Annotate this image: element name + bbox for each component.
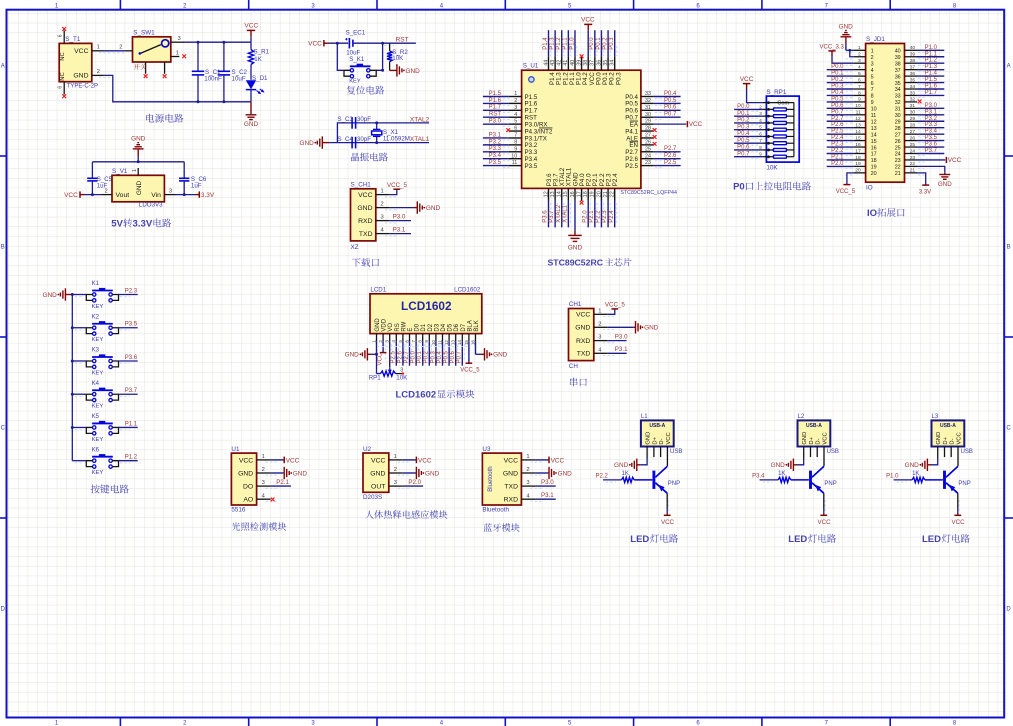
svg-text:RP1: RP1 xyxy=(369,375,382,382)
svg-text:24: 24 xyxy=(645,153,651,159)
S_JD1 right net wires P1/P3 xyxy=(917,45,944,154)
svg-text:P3.0: P3.0 xyxy=(393,214,406,221)
svg-text:10K: 10K xyxy=(392,55,404,62)
svg-text:1: 1 xyxy=(262,454,265,460)
wire T1 VCC to SW1 xyxy=(103,51,125,53)
svg-text:31: 31 xyxy=(895,107,901,113)
svg-text:17: 17 xyxy=(871,152,877,158)
svg-text:P1.0: P1.0 xyxy=(569,37,575,50)
svg-text:30: 30 xyxy=(910,110,916,116)
svg-text:6: 6 xyxy=(514,126,517,132)
svg-text:CH: CH xyxy=(569,363,579,370)
svg-text:3: 3 xyxy=(514,105,517,111)
svg-text:22: 22 xyxy=(910,161,916,167)
svg-text:31: 31 xyxy=(645,105,651,111)
resistor S_R1 1K xyxy=(248,42,269,80)
capacitor S_C3 30pF xyxy=(337,116,371,129)
svg-text:KEY: KEY xyxy=(92,337,104,343)
ground GND reset xyxy=(390,64,420,76)
svg-text:AO: AO xyxy=(243,497,253,504)
wire reset right drop xyxy=(376,43,384,72)
svg-text:S_EC1: S_EC1 xyxy=(346,30,366,37)
svg-text:29: 29 xyxy=(910,116,916,122)
svg-text:P3.0: P3.0 xyxy=(489,119,502,125)
svg-text:D-: D- xyxy=(950,438,956,444)
USB connector L3 xyxy=(932,414,973,466)
svg-text:VCC: VCC xyxy=(371,457,385,464)
ground GND JD1 top xyxy=(839,24,854,57)
svg-text:P3.6: P3.6 xyxy=(925,142,938,148)
svg-text:2: 2 xyxy=(262,467,265,473)
svg-text:7: 7 xyxy=(871,87,874,93)
svg-text:VCC: VCC xyxy=(818,519,832,526)
S_U1 bottom pins 12-22 xyxy=(543,167,620,230)
svg-text:P0.4: P0.4 xyxy=(664,91,677,97)
connector CH1 serial port xyxy=(569,301,615,370)
svg-text:VCC: VCC xyxy=(581,17,595,24)
svg-text:P3.7: P3.7 xyxy=(549,210,555,223)
svg-text:BLA: BLA xyxy=(467,320,473,331)
svg-text:37: 37 xyxy=(910,64,916,70)
svg-text:8: 8 xyxy=(514,139,517,145)
svg-text:P0.0: P0.0 xyxy=(589,37,595,50)
push button K3 xyxy=(72,348,137,377)
svg-text:XTAL2: XTAL2 xyxy=(410,116,430,123)
net label P3.0 serial xyxy=(608,334,628,341)
svg-text:GND: GND xyxy=(938,181,952,188)
svg-text:P2.5: P2.5 xyxy=(831,129,844,135)
svg-text:B: B xyxy=(1007,245,1011,251)
caption 下载口 xyxy=(352,258,379,267)
svg-text:21: 21 xyxy=(895,171,901,177)
svg-text:GND: GND xyxy=(568,245,583,252)
svg-text:D+: D+ xyxy=(943,436,949,444)
svg-text:VCC: VCC xyxy=(661,519,675,526)
USB connector L1 xyxy=(641,414,682,466)
svg-text:P1.2: P1.2 xyxy=(556,37,562,50)
caption 人体热释电感应模块 xyxy=(365,510,447,519)
svg-text:6: 6 xyxy=(404,340,409,343)
svg-text:16: 16 xyxy=(871,145,877,151)
svg-text:35: 35 xyxy=(895,81,901,87)
svg-text:VCC: VCC xyxy=(418,457,432,464)
svg-text:KEY: KEY xyxy=(92,470,104,476)
svg-text:3: 3 xyxy=(394,480,397,486)
svg-text:5: 5 xyxy=(858,71,861,77)
svg-text:VCC: VCC xyxy=(740,76,754,83)
svg-text:P2.5: P2.5 xyxy=(664,160,677,166)
svg-text:VCC: VCC xyxy=(286,457,300,464)
svg-text:2: 2 xyxy=(97,69,100,75)
svg-text:3.3V: 3.3V xyxy=(133,219,153,230)
caption LED灯电路 L2 xyxy=(788,534,836,545)
svg-text:P1.3: P1.3 xyxy=(550,37,556,50)
svg-text:RW: RW xyxy=(401,321,407,331)
svg-text:9: 9 xyxy=(514,146,517,152)
svg-text:39: 39 xyxy=(895,55,901,61)
svg-text:VCC: VCC xyxy=(822,432,828,444)
svg-text:D3: D3 xyxy=(434,323,440,331)
svg-text:P2.1: P2.1 xyxy=(831,154,844,160)
svg-text:16: 16 xyxy=(570,191,576,197)
svg-text:GND: GND xyxy=(614,462,629,469)
svg-text:GND: GND xyxy=(238,470,253,477)
svg-text:8: 8 xyxy=(858,90,861,96)
svg-text:14: 14 xyxy=(871,132,877,138)
svg-text:26: 26 xyxy=(910,135,916,141)
svg-text:P2.3: P2.3 xyxy=(602,210,608,223)
power port VCC pull-up xyxy=(740,76,763,102)
svg-text:P0.7: P0.7 xyxy=(831,109,844,115)
no-connect X T1 top pin xyxy=(62,27,66,31)
svg-text:VCC_3.3: VCC_3.3 xyxy=(820,45,845,51)
svg-text:P3.3: P3.3 xyxy=(489,146,502,152)
svg-text:C: C xyxy=(1006,426,1011,432)
svg-text:D5: D5 xyxy=(448,323,454,331)
svg-text:34: 34 xyxy=(895,87,901,93)
svg-text:USB-A: USB-A xyxy=(649,423,665,429)
LCD1602 pins 1-16 xyxy=(371,318,480,346)
svg-text:GND: GND xyxy=(644,325,659,332)
svg-text:43: 43 xyxy=(550,60,556,66)
svg-text:DO: DO xyxy=(243,484,253,491)
svg-text:S_K1: S_K1 xyxy=(349,56,365,63)
svg-text:2: 2 xyxy=(105,188,108,194)
svg-text:D-: D- xyxy=(659,438,665,444)
svg-text:P2.5: P2.5 xyxy=(391,350,397,363)
svg-text:VCC: VCC xyxy=(576,312,590,319)
svg-text:USB-A: USB-A xyxy=(940,423,956,429)
S_JD1 left net wires P0/P2 xyxy=(827,64,854,167)
switch label 开关 xyxy=(134,64,147,70)
svg-text:5: 5 xyxy=(398,340,403,343)
svg-text:37: 37 xyxy=(590,60,596,66)
svg-text:P3.6: P3.6 xyxy=(543,210,549,223)
svg-text:RST: RST xyxy=(489,112,501,118)
svg-text:23: 23 xyxy=(895,158,901,164)
svg-text:8: 8 xyxy=(418,340,423,343)
svg-text:27: 27 xyxy=(645,133,651,139)
transistor Q2 PNP xyxy=(811,466,837,493)
svg-text:P0.3: P0.3 xyxy=(831,84,844,90)
svg-text:XTAL1: XTAL1 xyxy=(410,136,430,143)
svg-text:27: 27 xyxy=(895,132,901,138)
power port VCC_5 LCD xyxy=(460,363,480,374)
svg-text:P2.4: P2.4 xyxy=(609,210,615,223)
svg-text:GND: GND xyxy=(905,462,920,469)
svg-text:P3.6: P3.6 xyxy=(125,355,138,361)
svg-text:10K: 10K xyxy=(396,375,408,382)
net label P3.1 serial xyxy=(608,346,628,353)
svg-text:U1: U1 xyxy=(231,446,240,453)
svg-text:P3.2: P3.2 xyxy=(925,116,938,122)
svg-text:11: 11 xyxy=(871,113,877,119)
svg-text:K2: K2 xyxy=(92,314,100,320)
svg-text:3: 3 xyxy=(400,368,403,374)
svg-text:KEY: KEY xyxy=(92,404,104,410)
svg-text:D-: D- xyxy=(816,438,822,444)
svg-text:P3.5: P3.5 xyxy=(525,163,538,170)
resistor network S_RP1 10K xyxy=(734,89,799,171)
svg-text:22: 22 xyxy=(895,165,901,171)
svg-text:P2.2: P2.2 xyxy=(596,474,609,480)
svg-text:P0.0: P0.0 xyxy=(737,104,750,110)
svg-text:1: 1 xyxy=(858,45,861,51)
svg-text:2: 2 xyxy=(381,202,384,208)
svg-text:44: 44 xyxy=(543,60,549,66)
svg-text:1K: 1K xyxy=(622,471,629,477)
switch S_SW1 xyxy=(119,29,185,73)
svg-text:28: 28 xyxy=(645,126,651,132)
svg-text:P1.3: P1.3 xyxy=(925,64,938,70)
svg-text:P0.0: P0.0 xyxy=(411,350,417,363)
svg-text:5V: 5V xyxy=(111,219,123,230)
svg-text:STC89C52RC_LQFP44: STC89C52RC_LQFP44 xyxy=(620,190,677,196)
svg-text:D203S: D203S xyxy=(363,494,382,501)
svg-text:P0.6: P0.6 xyxy=(450,350,456,363)
svg-text:11: 11 xyxy=(512,160,518,166)
svg-text:TXD: TXD xyxy=(577,351,591,358)
push button K5 xyxy=(72,414,137,443)
svg-text:1uF: 1uF xyxy=(191,182,202,189)
net label XTAL2 xyxy=(410,116,430,123)
svg-text:40: 40 xyxy=(570,60,576,66)
svg-text:VCC: VCC xyxy=(377,352,383,365)
svg-text:10K: 10K xyxy=(766,164,778,171)
svg-text:P1.0: P1.0 xyxy=(886,474,899,480)
caption STC89C52RC主芯片 xyxy=(548,258,632,268)
svg-text:USB: USB xyxy=(827,449,839,455)
svg-text:P2.2: P2.2 xyxy=(831,148,844,154)
svg-text:VCC_5: VCC_5 xyxy=(460,367,480,373)
svg-text:P3.1: P3.1 xyxy=(489,132,502,138)
svg-text:35: 35 xyxy=(910,77,916,83)
svg-text:P2.1: P2.1 xyxy=(589,210,595,223)
svg-text:11: 11 xyxy=(437,340,442,345)
svg-text:P2.4: P2.4 xyxy=(612,173,619,186)
svg-text:VCC: VCC xyxy=(74,48,88,55)
svg-text:17: 17 xyxy=(576,191,582,197)
caption 光照检测模块 xyxy=(232,522,287,530)
power port VCC top of chip xyxy=(581,17,595,31)
svg-text:LDO3V3: LDO3V3 xyxy=(139,201,163,208)
svg-text:P3.5: P3.5 xyxy=(125,322,138,328)
svg-text:P0.5: P0.5 xyxy=(831,96,844,102)
svg-text:D: D xyxy=(1006,607,1011,613)
svg-text:21: 21 xyxy=(603,191,609,197)
svg-text:36: 36 xyxy=(596,60,602,66)
no-connect X S_U1 pin 17 xyxy=(580,201,584,205)
capacitor S_C2 10uF xyxy=(218,42,248,102)
transistor Q3 PNP xyxy=(945,466,971,493)
svg-text:1K: 1K xyxy=(912,471,919,477)
svg-text:21: 21 xyxy=(910,168,916,174)
svg-text:GND: GND xyxy=(802,432,808,445)
svg-text:PNP: PNP xyxy=(958,481,970,487)
svg-text:GND: GND xyxy=(646,432,652,445)
svg-text:P1.1: P1.1 xyxy=(925,51,938,57)
svg-text:NC: NC xyxy=(60,52,66,60)
svg-text:4: 4 xyxy=(858,64,861,70)
no-connect X T1 bottom pin xyxy=(62,94,66,98)
svg-text:P0: P0 xyxy=(733,182,745,193)
svg-text:VCC: VCC xyxy=(666,432,672,444)
svg-text:D4: D4 xyxy=(441,323,447,331)
push button K6 xyxy=(72,447,137,476)
svg-text:P2.0: P2.0 xyxy=(408,479,421,486)
svg-text:VCC: VCC xyxy=(952,519,966,526)
svg-text:STC89C52RC: STC89C52RC xyxy=(548,258,604,268)
capacitor S_C4 30pF xyxy=(337,136,371,148)
svg-text:35: 35 xyxy=(603,60,609,66)
svg-text:GND: GND xyxy=(839,24,854,31)
IC S_U1 STC89C52RC body xyxy=(522,63,677,196)
svg-text:KEY: KEY xyxy=(92,304,104,310)
svg-text:28: 28 xyxy=(895,126,901,132)
svg-text:10: 10 xyxy=(855,103,861,109)
svg-text:D7: D7 xyxy=(461,323,467,331)
svg-text:RS: RS xyxy=(395,323,401,331)
USB connector L2 xyxy=(798,414,839,466)
svg-text:5: 5 xyxy=(514,119,517,125)
svg-text:14: 14 xyxy=(557,191,563,197)
svg-text:P3.1: P3.1 xyxy=(615,346,628,353)
svg-text:TXD: TXD xyxy=(504,484,518,491)
svg-text:P3.4: P3.4 xyxy=(752,474,765,480)
svg-text:P0.3: P0.3 xyxy=(615,72,622,85)
svg-text:KEY: KEY xyxy=(92,437,104,443)
svg-text:D0: D0 xyxy=(415,323,421,331)
caption P0口上拉电阻电路 xyxy=(733,182,811,193)
svg-text:P3.0: P3.0 xyxy=(615,334,628,341)
svg-text:9: 9 xyxy=(858,97,861,103)
svg-text:3: 3 xyxy=(169,188,172,194)
LCD1602 module body xyxy=(370,287,482,334)
svg-text:P2.7: P2.7 xyxy=(664,146,677,152)
no-connect X S_U1 pin 6 xyxy=(506,128,510,132)
no-connect X SW1 bottom pins xyxy=(144,74,167,78)
svg-text:P3.0: P3.0 xyxy=(925,103,938,109)
svg-text:GND: GND xyxy=(73,73,88,80)
svg-text:GND: GND xyxy=(370,470,385,477)
svg-text:P3.5: P3.5 xyxy=(489,160,502,166)
ground GND download xyxy=(390,201,441,213)
svg-text:P0.1: P0.1 xyxy=(737,111,750,117)
svg-text:K4: K4 xyxy=(92,381,100,387)
svg-text:10: 10 xyxy=(871,107,877,113)
svg-text:2: 2 xyxy=(119,44,122,50)
ground GND JD1 right xyxy=(917,166,952,187)
svg-text:13: 13 xyxy=(550,191,556,197)
svg-text:GND: GND xyxy=(299,140,314,147)
svg-text:IO: IO xyxy=(866,185,873,192)
svg-text:D6: D6 xyxy=(454,323,460,331)
svg-text:P0.4: P0.4 xyxy=(737,131,750,137)
svg-text:BLK: BLK xyxy=(474,320,480,331)
svg-text:RXD: RXD xyxy=(504,497,518,504)
svg-text:P0.5: P0.5 xyxy=(444,350,450,363)
svg-text:3: 3 xyxy=(871,61,874,67)
svg-text:P1.4: P1.4 xyxy=(543,37,549,50)
svg-text:USB: USB xyxy=(670,449,682,455)
caption 5V转3.3V电路 xyxy=(111,219,171,230)
svg-text:1: 1 xyxy=(176,50,179,56)
svg-text:33: 33 xyxy=(910,90,916,96)
svg-text:100nF: 100nF xyxy=(204,76,222,83)
no-connect X S_JD1 pin 32 xyxy=(918,100,922,104)
svg-text:GND: GND xyxy=(771,462,786,469)
ground GND LCD right xyxy=(475,348,507,360)
svg-text:VCC: VCC xyxy=(64,192,78,199)
svg-text:25: 25 xyxy=(910,142,916,148)
svg-text:1: 1 xyxy=(394,454,397,460)
power port VCC ldo xyxy=(64,191,101,199)
svg-text:1: 1 xyxy=(526,454,529,460)
svg-text:22: 22 xyxy=(610,191,616,197)
svg-text:GND: GND xyxy=(426,205,441,212)
svg-text:B: B xyxy=(1,245,5,251)
ground GND crystal xyxy=(299,136,329,148)
svg-text:7: 7 xyxy=(411,340,416,343)
svg-text:39: 39 xyxy=(576,60,582,66)
svg-text:P0.7: P0.7 xyxy=(457,350,463,363)
svg-text:VCC_5: VCC_5 xyxy=(605,302,626,309)
svg-text:24: 24 xyxy=(910,148,916,154)
PIR module U2 (D203S) xyxy=(363,446,440,501)
svg-text:GND: GND xyxy=(575,325,590,332)
svg-text:30: 30 xyxy=(645,112,651,118)
svg-text:P3.7: P3.7 xyxy=(125,388,138,394)
svg-text:E: E xyxy=(408,328,414,332)
svg-text:1: 1 xyxy=(598,308,601,314)
svg-text:19: 19 xyxy=(590,191,596,197)
resistor S_R2 10K xyxy=(387,43,408,70)
svg-text:23: 23 xyxy=(645,160,651,166)
svg-text:10uF: 10uF xyxy=(232,76,246,83)
svg-text:P0.6: P0.6 xyxy=(831,103,844,109)
svg-text:GND: GND xyxy=(244,121,259,128)
svg-text:3: 3 xyxy=(381,215,384,221)
svg-text:L2: L2 xyxy=(798,414,805,420)
svg-text:D+: D+ xyxy=(652,436,658,444)
svg-text:VCC: VCC xyxy=(308,41,322,48)
svg-text:14: 14 xyxy=(855,129,861,135)
power port VCC L2 xyxy=(818,493,832,526)
svg-text:GND: GND xyxy=(43,292,58,299)
ground GND serial xyxy=(608,321,659,333)
ground rail bottom xyxy=(103,75,251,103)
svg-text:1: 1 xyxy=(97,44,100,50)
svg-text:16: 16 xyxy=(855,142,861,148)
wire VCC to EC1 xyxy=(329,42,349,45)
svg-text:PNP: PNP xyxy=(668,481,680,487)
power port VCC reset xyxy=(308,40,328,48)
svg-text:P0.5: P0.5 xyxy=(737,138,750,144)
svg-text:2: 2 xyxy=(526,467,529,473)
svg-text:P1.2: P1.2 xyxy=(925,58,938,64)
power port VCC LCD pin2 xyxy=(377,352,386,365)
svg-text:1: 1 xyxy=(514,91,517,97)
svg-text:19: 19 xyxy=(855,161,861,167)
svg-text:20: 20 xyxy=(855,168,861,174)
svg-text:32: 32 xyxy=(645,98,651,104)
no-connect X SW1 pin1 xyxy=(182,54,186,58)
svg-text:LED: LED xyxy=(630,534,649,545)
S_U1 top pins 44-34 xyxy=(543,30,622,85)
svg-text:D2: D2 xyxy=(428,323,434,331)
ground GND L1 xyxy=(614,459,647,472)
svg-text:3.3V: 3.3V xyxy=(919,190,931,196)
